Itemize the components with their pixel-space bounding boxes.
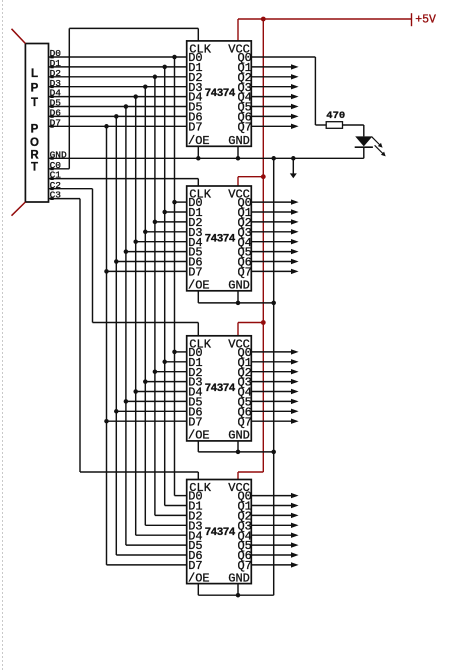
wire net C3 to U4 CLK [49,199,199,480]
junction GND U3 [236,450,276,455]
junction D2 bus start [153,75,158,80]
wire D5 from port to U1 [49,106,187,108]
wire D6 from port to U1 [49,115,187,117]
wire net C0 to U1 CLK [49,28,199,168]
wire VCC riser U1 [237,19,239,41]
junction +5V branch U3 [261,320,266,325]
wire U3 Q6 output arrow [251,409,298,414]
port pin label D6 [50,108,62,119]
port pin label C3 [50,190,62,201]
wire U4 Q2 output arrow [251,513,298,518]
junction D5 bus start [124,104,128,109]
op-amp U3 74374 octal latch [187,336,252,443]
wire /OE riser U4 [197,584,199,596]
wire D1 vertical bus [164,67,166,506]
LED emission arrows [372,137,386,157]
wire U3 Q1 output arrow [251,359,298,364]
port pin label D0 [50,48,62,59]
wire /OE riser U2 [197,291,199,303]
svg-text:GND: GND [228,571,250,585]
junction dots on GND line [196,156,295,161]
wire VCC branch U3 [238,323,263,336]
junction GND U2 [236,301,276,306]
wire D0 tap to U2 [172,200,186,205]
power rail +5V [238,13,436,26]
wire U1 Q0 to resistor [251,57,326,125]
wire U1 Q1 output arrow [251,64,298,69]
wire U1 Q6 output arrow [251,114,298,119]
svg-text:L: L [31,68,38,80]
wire bottom line U3 [198,451,273,453]
wire U1 Q2 output arrow [251,74,298,79]
wire GND riser U1 [237,146,239,158]
wire D0 tap to U4 [175,495,187,497]
wire D4 tap to U4 [136,534,187,536]
wire GND riser U2 [237,291,239,303]
wire D5 tap to U3 [124,399,187,404]
junction D1 bus start [162,65,167,70]
svg-text:470: 470 [326,110,345,122]
wire U4 Q1 output arrow [251,503,298,508]
wire D4 tap to U2 [133,239,186,244]
wire D3 vertical bus [144,87,146,526]
wire D0 from port to U1 [49,56,187,58]
wire D2 tap to U2 [153,220,187,225]
wire U3 Q0 output arrow [251,349,298,354]
wire VCC branch U4 [238,472,263,480]
wire GND vertical bus [273,158,275,595]
wire U2 Q0 output arrow [251,199,298,204]
svg-text:T: T [31,97,38,109]
wire D5 vertical bus [125,107,127,546]
wire D2 from port to U1 [49,76,187,78]
wire U1 Q5 output arrow [251,104,298,109]
junction D0 bus start [172,55,177,60]
svg-text:74374: 74374 [205,527,236,539]
svg-text:D7: D7 [188,415,202,429]
wire D1 tap to U4 [165,505,187,507]
wire D6 tap to U3 [114,409,187,414]
svg-text:/OE: /OE [188,134,210,148]
port pin label GND [50,149,67,160]
wire D1 from port to U1 [49,66,187,68]
svg-text:T: T [31,162,38,174]
wire U4 Q7 output arrow [251,562,298,567]
svg-text:D7: D7 [188,266,202,280]
junction D4 bus start [133,94,138,99]
wire U3 Q4 output arrow [251,389,298,394]
wire D4 from port to U1 [49,96,187,98]
svg-text:Q7: Q7 [237,266,251,280]
wire U2 Q4 output arrow [251,239,298,244]
wire net C1 to U2 CLK [49,179,199,186]
wire D2 vertical bus [154,77,156,516]
junction +5V branch U2 [261,174,266,179]
wire U4 Q5 output arrow [251,542,298,547]
wire U4 Q4 output arrow [251,533,298,538]
wire bottom line U2 [198,302,273,304]
svg-text:74374: 74374 [205,383,236,395]
wire U3 Q3 output arrow [251,379,298,384]
wire /OE riser U1 [197,146,199,158]
wire D4 vertical bus [135,97,137,536]
wire GND riser U4 [237,584,239,596]
wire D7 from port to U1 [49,125,187,127]
svg-text:P: P [31,124,39,136]
port pin label C0 [50,160,62,171]
wire U1 Q3 output arrow [251,84,298,89]
ground symbol [290,158,297,178]
wire D6 vertical bus [115,116,117,555]
wire D0 vertical bus [174,57,176,496]
wire U3 Q7 output arrow [251,419,298,424]
wire resistor to LED [343,125,364,136]
wire U2 Q5 output arrow [251,249,298,254]
svg-text:/OE: /OE [188,279,210,293]
wire U3 Q5 output arrow [251,399,298,404]
wire D1 tap to U3 [162,360,186,365]
port pin label D2 [50,68,62,79]
wire U4 Q3 output arrow [251,523,298,528]
wire D3 tap to U4 [145,524,186,526]
wire D3 tap to U3 [143,379,187,384]
connector red corner marks [12,29,26,216]
wire GND riser U3 [237,441,239,452]
resistor 470 [326,110,345,129]
wire D6 tap to U2 [114,259,187,264]
junction D3 bus start [143,84,148,89]
wire U4 Q0 output arrow [251,493,298,498]
wire D5 tap to U4 [126,544,187,546]
svg-text:Q7: Q7 [237,415,251,429]
wire U2 Q7 output arrow [251,269,298,274]
svg-text:GND: GND [228,429,250,443]
svg-text:74374: 74374 [205,88,236,100]
wire D2 tap to U3 [153,369,187,374]
svg-text:+5V: +5V [415,14,436,27]
svg-text:O: O [30,137,39,149]
wire bottom line U4 [198,594,273,596]
port pin label D4 [50,88,62,99]
port pin label D5 [50,98,62,109]
svg-text:D7: D7 [188,120,202,134]
svg-text:74374: 74374 [205,233,236,245]
wire GND main line [49,157,364,159]
page border dotted [2,0,4,671]
op-amp U4 74374 octal latch [187,480,252,586]
wire U4 Q6 output arrow [251,552,298,557]
wire D3 tap to U2 [143,230,187,235]
wire VCC branch U2 [238,177,263,186]
wire U2 Q1 output arrow [251,209,298,214]
svg-text:Q7: Q7 [237,120,251,134]
wire D7 vertical bus [106,126,108,565]
wire D4 tap to U3 [133,389,186,394]
LED D1 [355,136,373,158]
port pin label D7 [50,117,61,128]
wire +5V vertical bus [262,19,264,472]
svg-text:R: R [30,149,39,161]
wire D6 tap to U4 [116,554,186,556]
wire D5 tap to U2 [124,249,187,254]
port pin label C1 [50,170,62,181]
wire D2 tap to U4 [155,514,187,516]
wire D7 tap to U3 [104,419,186,424]
wire D1 tap to U2 [162,210,186,215]
svg-text:/OE: /OE [188,571,210,585]
wire U2 Q2 output arrow [251,219,298,224]
op-amp U1 74374 octal latch [187,41,252,148]
svg-text:GND: GND [228,279,250,293]
junction D7 bus start [104,124,109,129]
wire U1 Q4 output arrow [251,94,298,99]
svg-text:P: P [31,82,39,94]
junction +5V rail [261,17,266,22]
wire U3 Q2 output arrow [251,369,298,374]
connector J1 LPT PORT [25,44,48,203]
junction GND U4 [236,593,241,598]
svg-text:/OE: /OE [188,429,210,443]
wire U2 Q6 output arrow [251,259,298,264]
wire D3 from port to U1 [49,86,187,88]
wire U1 Q7 output arrow [251,124,298,129]
port pin label D3 [50,78,62,89]
wire D7 tap to U4 [107,564,187,566]
wire /OE riser U3 [197,441,199,452]
op-amp U2 74374 octal latch [187,186,252,293]
junction D6 bus start [114,114,119,119]
svg-text:GND: GND [228,134,250,148]
wire D0 tap to U3 [172,350,186,355]
wire U2 Q3 output arrow [251,229,298,234]
wire D7 tap to U2 [104,269,186,274]
port pin label D1 [50,58,62,69]
port pin label C2 [50,180,62,191]
wire net C2 to U3 CLK [49,189,199,336]
